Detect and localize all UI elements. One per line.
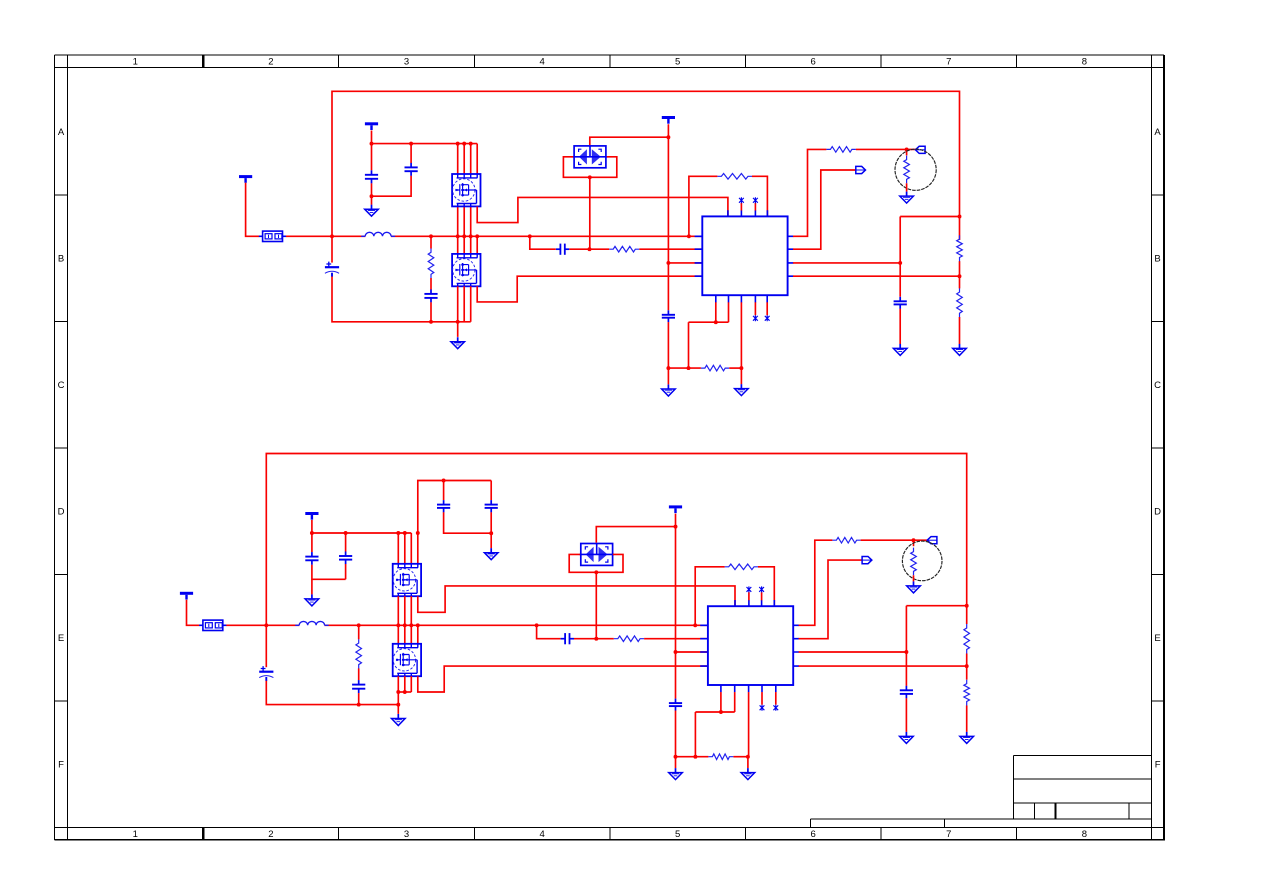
- wire Q1 source to U1 pin1: [477, 197, 728, 222]
- power symbol VCC4: [180, 593, 193, 599]
- junction: [462, 142, 466, 146]
- junction: [535, 623, 539, 627]
- junction: [965, 664, 969, 668]
- wire col4 down: [417, 533, 419, 564]
- junction: [719, 710, 723, 714]
- svg-text:6: 6: [811, 57, 816, 68]
- wire Q4 tie: [398, 691, 411, 693]
- wire Q1 pin col x457.7 bottom: [457, 207, 459, 237]
- wire top tie right: [900, 216, 959, 218]
- junction: [456, 320, 460, 324]
- junction: [442, 479, 446, 483]
- wire to ground G2: [457, 322, 459, 337]
- wire R3 to U1 top pin4: [752, 176, 767, 216]
- wire VCC3 to U1 pin3: [668, 262, 702, 264]
- junction: [403, 690, 407, 694]
- junction: [475, 234, 479, 238]
- wire CD top: [490, 481, 492, 501]
- wire VIN top rail: [332, 91, 960, 236]
- wire Q1 pin col x464.2 top: [463, 144, 465, 174]
- capacitor C1: [365, 170, 378, 183]
- transistor Q3 (MOSFET): [393, 564, 421, 596]
- wire rail to R7: [959, 217, 961, 241]
- resistor R1: [428, 248, 434, 278]
- junction: [965, 604, 969, 608]
- wire Q1 pin col x464.2 bottom: [463, 207, 465, 237]
- junction: [396, 690, 400, 694]
- power symbol VCC3: [662, 118, 675, 124]
- diode D1 (TVS): [573, 146, 608, 168]
- title block: [811, 755, 1152, 827]
- junction: [370, 194, 374, 198]
- wire Q2 col x457.7 top: [457, 236, 459, 253]
- junction: [344, 531, 348, 535]
- resistor R4: [701, 365, 729, 371]
- wire U2 b1: [720, 692, 722, 712]
- wire Q4 col x404.8 top: [404, 625, 406, 643]
- svg-text:3: 3: [404, 57, 409, 68]
- resistor R10: [614, 636, 644, 642]
- capacitor C5: [556, 244, 569, 255]
- junction: [588, 247, 592, 251]
- connector J1: [259, 231, 287, 241]
- junction: [528, 234, 532, 238]
- frame outer border: [55, 55, 1165, 840]
- wire U1 r4: [793, 275, 960, 277]
- wire CC bottom: [444, 512, 492, 533]
- svg-text:6: 6: [811, 829, 816, 840]
- svg-text:7: 7: [946, 57, 951, 68]
- svg-text:8: 8: [1082, 57, 1087, 68]
- junction: [310, 531, 314, 535]
- wire U2 r1 to R13: [799, 540, 833, 625]
- wire col to R15: [966, 606, 968, 624]
- transistor Q4 (MOSFET): [393, 644, 421, 676]
- ground G5: [900, 192, 914, 204]
- transistor Q2 (MOSFET): [452, 254, 480, 286]
- junction: [456, 234, 460, 238]
- ground G3: [662, 385, 676, 397]
- IC U1: [695, 210, 794, 302]
- junction: [739, 366, 743, 370]
- junction: [594, 570, 598, 574]
- ground G2: [451, 337, 465, 349]
- wire Q2 col x470.7 top: [470, 236, 472, 253]
- svg-text:F: F: [58, 760, 64, 771]
- power symbol VCC5: [305, 514, 318, 520]
- wire input left: [246, 183, 260, 237]
- wire Q4 source to U2 left pin4: [418, 666, 708, 692]
- wire D1 top to VCC3: [590, 137, 669, 145]
- inductor L2: [299, 621, 324, 625]
- wire CD bottom to ground: [490, 512, 492, 548]
- svg-text:F: F: [1155, 760, 1161, 771]
- wire Q3 col x411.3 bottom: [410, 596, 412, 625]
- wire C15 to R10: [574, 638, 614, 640]
- ground G1: [365, 205, 379, 217]
- wire Q2 col x470.7 bottom: [470, 286, 472, 322]
- wire R5 to flag: [856, 148, 916, 150]
- wire rail to ground: [397, 705, 399, 714]
- junction: [588, 175, 592, 179]
- wire Q4 col x398.3 top: [397, 625, 399, 643]
- wire C1 bottom to ground: [371, 183, 373, 205]
- wire C14 to ground: [675, 711, 677, 769]
- wire R11 to U2 top pin4: [758, 567, 774, 606]
- wire nc5: [748, 592, 750, 600]
- ground G15: [960, 732, 974, 744]
- lamp/sensor circle LP1: [895, 149, 936, 190]
- wire C4 bottom: [430, 302, 432, 322]
- junction: [409, 623, 413, 627]
- resistor R14 (lamp): [911, 548, 917, 576]
- ground G8: [484, 548, 498, 560]
- IC U2: [700, 600, 799, 692]
- wire D2 loop: [569, 554, 623, 572]
- lamp/sensor circle LP2: [902, 541, 942, 581]
- wire to lamp R: [906, 149, 908, 155]
- junction: [666, 366, 670, 370]
- junction: [746, 755, 750, 759]
- resistor R13: [832, 537, 860, 543]
- wire C13 bottom: [358, 693, 360, 705]
- svg-text:5: 5: [675, 57, 680, 68]
- wire to G4: [740, 368, 742, 384]
- wire CC top: [443, 481, 445, 501]
- wire C2 top: [410, 144, 412, 163]
- svg-text:E: E: [1154, 633, 1160, 644]
- wire nc2: [754, 203, 756, 211]
- wire R1-C4: [430, 278, 432, 290]
- junction: [264, 623, 268, 627]
- resistor R9: [356, 639, 362, 669]
- capacitor C3 (polarized): [325, 262, 339, 277]
- wire R15-R16: [966, 654, 968, 680]
- ground G6: [893, 344, 907, 356]
- wire U1 b3 to ground: [740, 302, 742, 368]
- svg-text:3: 3: [404, 829, 409, 840]
- wire Q2 source to U1 left pin4: [477, 276, 702, 302]
- junction: [462, 234, 466, 238]
- wire to G12: [747, 757, 749, 768]
- wire VCC3 vertical: [667, 124, 669, 310]
- svg-text:D: D: [58, 507, 65, 518]
- svg-text:E: E: [58, 633, 64, 644]
- wire main SW net 2b: [324, 624, 708, 626]
- wire nc4: [766, 302, 768, 315]
- frame row ticks: [55, 195, 1165, 701]
- capacitor C15: [561, 633, 574, 644]
- wire main SW net 2a: [226, 624, 299, 626]
- junction: [396, 623, 400, 627]
- wire Q4 col x398.3 bottom: [397, 676, 399, 692]
- no-connect X6: [759, 586, 764, 592]
- connector J2: [199, 620, 227, 630]
- svg-text:5: 5: [675, 829, 680, 840]
- wire VCC6 vertical: [675, 514, 677, 699]
- junction: [904, 650, 908, 654]
- wire Q1 pin col x457.7 top: [457, 144, 459, 174]
- resistor R3: [717, 174, 752, 180]
- junction: [489, 531, 493, 535]
- junction: [905, 147, 909, 151]
- wire C6 to ground: [667, 322, 669, 384]
- wire Q4 col x417.8 top: [417, 625, 419, 643]
- wire lamp 2 to ground: [913, 575, 915, 581]
- junction: [898, 261, 902, 265]
- junction: [357, 703, 361, 707]
- wire R1 top: [430, 236, 432, 248]
- wire U2 r4: [799, 665, 967, 667]
- power symbol VCC2: [239, 177, 252, 183]
- junction: [674, 755, 678, 759]
- wire Q3 col x404.8 top: [404, 533, 406, 564]
- ground G4: [735, 384, 749, 396]
- wire to C3 pol: [331, 236, 333, 262]
- wire D1 to pin2 net: [589, 177, 591, 249]
- wire nc3: [754, 302, 756, 315]
- wire tie to rail: [397, 692, 399, 705]
- wire gnd net left: [668, 367, 701, 369]
- junction: [409, 142, 413, 146]
- junction: [687, 366, 691, 370]
- wire Q3 col x411.3 top: [410, 533, 412, 564]
- junction: [403, 531, 407, 535]
- junction: [674, 525, 678, 529]
- inductor L1: [365, 232, 391, 236]
- wire Q3 col x398.3 top: [397, 533, 399, 564]
- junction: [370, 142, 374, 146]
- wire nc1: [740, 203, 742, 211]
- svg-text:4: 4: [539, 829, 544, 840]
- ground G7: [953, 344, 967, 356]
- resistor R5: [826, 147, 856, 153]
- frame inner lines: [55, 55, 1165, 840]
- resistor R16: [964, 680, 970, 706]
- junction: [456, 142, 460, 146]
- resistor R12: [708, 754, 733, 760]
- wire Q1 pin col x477.2 top: [476, 144, 478, 174]
- junction: [714, 320, 718, 324]
- svg-text:1: 1: [133, 829, 138, 840]
- junction: [666, 135, 670, 139]
- junction: [693, 623, 697, 627]
- junction: [469, 142, 473, 146]
- diode D2 (TVS): [579, 544, 614, 566]
- junction: [416, 531, 420, 535]
- junction: [594, 637, 598, 641]
- capacitor C2: [405, 163, 418, 176]
- wire nc8: [775, 692, 777, 705]
- wire Q1 pin col x470.7 bottom: [470, 207, 472, 237]
- svg-text:2: 2: [268, 57, 273, 68]
- svg-text:8: 8: [1082, 829, 1087, 840]
- wire D1 loop: [563, 157, 616, 178]
- capacitor C12 (polarized): [259, 666, 273, 681]
- net flag F1: [915, 146, 925, 153]
- wire main SW net b: [391, 235, 702, 237]
- wire VCC5 down: [311, 520, 313, 552]
- wire C7 to ground: [899, 309, 901, 344]
- junction: [958, 215, 962, 219]
- no-connect X2: [753, 197, 758, 203]
- resistor R8: [957, 288, 963, 317]
- wire U1 r2 to flag F2: [793, 170, 856, 249]
- junction: [429, 320, 433, 324]
- wire Q2 col x477.2 top: [476, 236, 478, 253]
- wire Q4 col x411.3 bottom: [410, 676, 412, 692]
- junction: [469, 234, 473, 238]
- svg-text:A: A: [58, 127, 65, 138]
- wire gate drive rail: [372, 143, 478, 145]
- wire D2 down: [595, 572, 597, 638]
- wire power to C1: [371, 131, 373, 171]
- no-connect X4: [765, 315, 770, 321]
- wire U2 b3 to ground: [748, 692, 750, 757]
- wire to ground G9: [311, 579, 313, 594]
- no-connect X5: [747, 586, 752, 592]
- wire Q3 source to U2 pin1: [418, 586, 735, 612]
- junction: [674, 650, 678, 654]
- wire gate rail 2: [312, 532, 411, 534]
- svg-text:4: 4: [539, 57, 544, 68]
- resistor R2: [609, 246, 639, 252]
- junction: [958, 274, 962, 278]
- wire Q2 col x457.7 bottom: [457, 286, 459, 322]
- net flag F3: [927, 537, 937, 544]
- ground G11: [669, 768, 683, 780]
- wire Q4 col x411.3 top: [410, 625, 412, 643]
- wire b1-b2 tie: [689, 321, 729, 323]
- wire top tie right 2: [906, 605, 966, 607]
- wire C2 bottom: [372, 176, 412, 197]
- svg-text:B: B: [1154, 253, 1160, 264]
- wire cap block top: [418, 481, 491, 534]
- capacitor C11: [339, 552, 352, 565]
- ground G14: [900, 732, 914, 744]
- svg-text:C: C: [58, 380, 65, 391]
- wire to C15: [537, 625, 561, 638]
- svg-text:D: D: [1154, 507, 1161, 518]
- wire U2 r3 feedback: [799, 651, 907, 653]
- wire C5 to R2: [569, 248, 609, 250]
- transistor Q1 (MOSFET): [452, 174, 480, 206]
- svg-text:1: 1: [133, 57, 138, 68]
- wire tie down: [688, 322, 690, 368]
- junction: [403, 623, 407, 627]
- junction: [330, 234, 334, 238]
- wire U1 r1 to R5: [793, 149, 826, 236]
- capacitor C13: [352, 680, 365, 693]
- wire R11 left: [695, 567, 725, 626]
- no-connect X7: [760, 705, 765, 711]
- resistor R7: [957, 235, 963, 261]
- no-connect X3: [753, 315, 758, 321]
- wire U1 b2: [728, 302, 730, 322]
- ground G13: [907, 581, 921, 593]
- resistor R11: [725, 564, 758, 570]
- ground G10: [392, 714, 406, 726]
- junction: [396, 703, 400, 707]
- wire left divider col 2: [905, 606, 907, 686]
- wire nc7: [761, 692, 763, 705]
- wire left divider col: [899, 217, 901, 297]
- wire R3 left: [689, 176, 718, 236]
- wire R13 to flag: [861, 539, 928, 541]
- wire bottom rail 2: [266, 681, 398, 705]
- wire nc6: [761, 592, 763, 600]
- wire tie down 2: [694, 712, 696, 757]
- ground G9: [305, 594, 319, 606]
- wire C10 bottom rail: [312, 565, 346, 580]
- frame column ticks: [203, 55, 1017, 840]
- svg-text:2: 2: [268, 829, 273, 840]
- wire gnd net right: [729, 367, 741, 369]
- capacitor C6: [662, 310, 675, 322]
- wire U2 b2: [734, 692, 736, 712]
- frame zone labels: [58, 57, 1162, 840]
- wire U2 r2 to flag F4: [799, 560, 863, 639]
- wire Q3 col x404.8 bottom: [404, 596, 406, 625]
- wire U1 r3 feedback: [793, 262, 900, 264]
- wire VIN top rail 2: [266, 454, 966, 626]
- power symbol VCC6: [669, 507, 682, 513]
- wire C11 top: [345, 533, 347, 552]
- wire C11 bottom: [345, 564, 347, 579]
- wire input left 2: [187, 600, 200, 626]
- resistor R15: [964, 624, 970, 654]
- wire R10 to U2 pin2: [644, 638, 708, 640]
- wire to C5: [530, 236, 556, 249]
- wire R8 to ground: [959, 317, 961, 344]
- wire to lamp R 2: [913, 540, 915, 546]
- wire C16 to ground: [905, 698, 907, 732]
- wire R9-C13: [358, 668, 360, 680]
- resistor R6 (lamp): [904, 156, 910, 184]
- wire gnd net 2 left: [676, 756, 709, 758]
- svg-text:7: 7: [946, 829, 951, 840]
- power symbol VCC1: [365, 124, 378, 130]
- junction: [912, 538, 916, 542]
- no-connect X1: [739, 197, 744, 203]
- junction: [416, 623, 420, 627]
- capacitor C16: [900, 686, 913, 699]
- capacitor C8: [437, 500, 450, 512]
- capacitor C14: [669, 699, 682, 711]
- wire Q4 col x404.8 bottom: [404, 676, 406, 692]
- wire Q1 pin col x470.7 top: [470, 144, 472, 174]
- wire R2 to U1 pin2: [639, 248, 702, 250]
- svg-text:C: C: [1154, 380, 1161, 391]
- junction: [396, 531, 400, 535]
- wire Q2 col x464.2 top: [463, 236, 465, 253]
- ground G12: [741, 768, 755, 780]
- junction: [429, 234, 433, 238]
- capacitor C10: [305, 552, 318, 565]
- junction: [687, 234, 691, 238]
- capacitor C7: [894, 297, 907, 309]
- net flag F2: [856, 166, 866, 173]
- wire Q2 col x464.2 bottom: [463, 286, 465, 322]
- capacitor C4: [424, 289, 437, 302]
- wire VCC6 to U2 pin3: [676, 651, 708, 653]
- junction: [693, 755, 697, 759]
- wire b tie 2: [695, 711, 734, 713]
- wire lamp to ground: [906, 183, 908, 191]
- net flag F4: [862, 557, 872, 564]
- wire D2 top to VCC6: [596, 527, 675, 543]
- capacitor C9: [485, 500, 498, 512]
